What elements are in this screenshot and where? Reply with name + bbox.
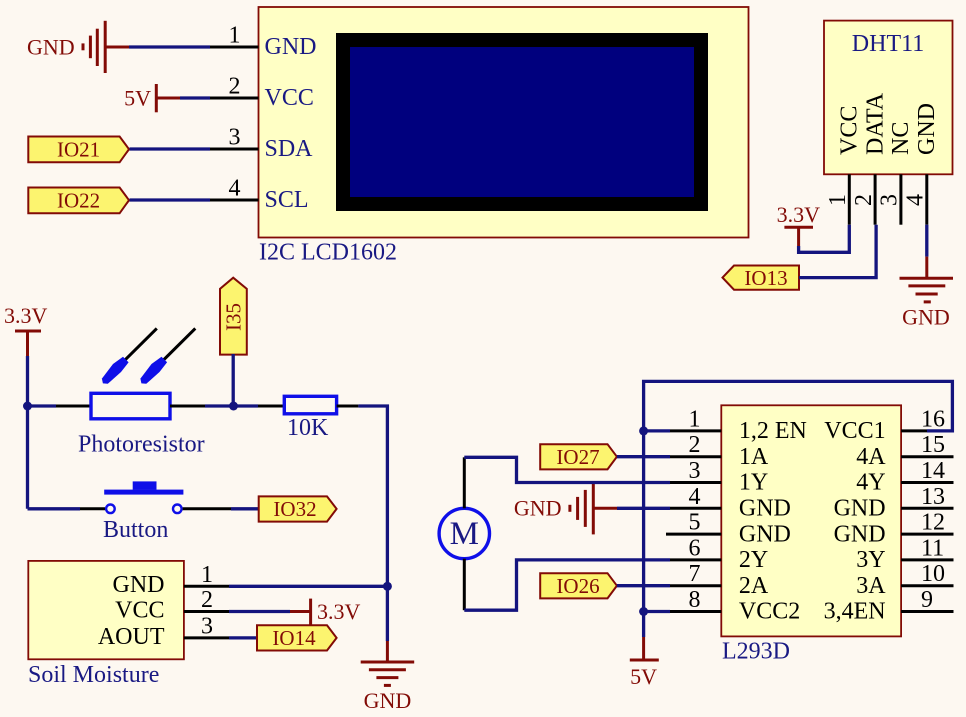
power symbol 3.3V for DHT11 [777,202,821,246]
svg-text:3.3V: 3.3V [4,303,48,328]
pin 2 DATA of DHT11 [851,174,877,224]
net port IO14 [229,625,337,650]
svg-text:GND: GND [914,103,940,155]
svg-text:10: 10 [921,561,945,587]
pin 1 VCC of DHT11 [825,174,851,224]
svg-text:1,2 EN: 1,2 EN [739,418,807,444]
net port IO26 [540,573,617,598]
svg-text:3,4EN: 3,4EN [824,599,886,625]
junction node B [229,402,238,411]
svg-text:GND: GND [265,34,317,60]
svg-text:DHT11: DHT11 [852,31,924,57]
motor M1 [439,508,489,558]
svg-text:L293D: L293D [722,639,790,665]
svg-text:4: 4 [689,484,701,510]
IC U4 L293D body [721,405,901,636]
svg-text:Button: Button [103,517,168,543]
net port IO13 [723,266,800,290]
svg-text:VCC: VCC [837,106,863,155]
svg-text:SDA: SDA [265,136,314,162]
wire Soil GND pin to node C [229,585,387,588]
svg-text:1: 1 [825,194,851,206]
ground symbol GND at L293D pin4 [514,482,617,534]
svg-text:VCC: VCC [265,85,314,111]
power symbol 3.3V for Soil Moisture [229,599,361,625]
sensor U2 DHT11 body [824,21,953,175]
svg-text:1A: 1A [739,444,769,470]
pin 14 (4Y) stub [901,458,953,484]
svg-text:2: 2 [201,587,213,613]
svg-text:IO26: IO26 [556,574,599,598]
ground symbol GND bottom [361,641,415,713]
module U3 Soil Moisture body [28,561,184,659]
svg-text:5: 5 [689,510,701,536]
svg-text:10K: 10K [287,415,329,441]
svg-text:3: 3 [229,125,241,151]
svg-text:9: 9 [921,587,933,613]
svg-text:IO27: IO27 [556,445,599,469]
wire IO26 to pin 7 [617,584,670,587]
svg-text:IO13: IO13 [744,266,787,290]
net port IO32 [259,496,337,521]
svg-text:2A: 2A [739,573,769,599]
pin 13 (GND) stub [901,484,953,510]
svg-text:2: 2 [689,432,701,458]
pin 1 GND of LCD [210,23,259,49]
svg-text:VCC1: VCC1 [824,418,885,444]
svg-text:GND: GND [113,572,165,598]
net port IO21 [28,137,129,163]
svg-text:1Y: 1Y [739,470,768,496]
svg-text:16: 16 [921,406,945,432]
net port I35 [220,278,247,355]
wire IO22 to LCD pin4 [130,198,211,201]
pin 8 (VCC2) stub [670,587,721,613]
pin 3 (1Y) stub [670,458,721,484]
svg-text:1: 1 [229,23,241,49]
resistor R2 10K [258,396,337,441]
svg-text:NC: NC [888,122,914,155]
pin 2 VCC of Soil Moisture [184,587,229,613]
wire node C down to ground [386,586,389,641]
svg-text:7: 7 [689,561,701,587]
pin 5 (GND) stub [666,510,721,536]
ground symbol GND under DHT11 [900,257,954,330]
svg-text:8: 8 [689,587,701,613]
svg-text:M: M [450,516,479,552]
pin 9 (3,4EN) stub [901,587,953,613]
pin 2 (1A) stub [670,432,721,458]
photoresistor R1 body [91,328,195,418]
svg-text:1: 1 [201,562,213,588]
svg-text:2: 2 [851,194,877,206]
wire VCC1 over the top to 5V rail [644,381,953,637]
wire motor top to pin 3 (1Y) [464,457,670,508]
svg-text:I2C LCD1602: I2C LCD1602 [259,240,397,266]
wire 3.3V to DHT11 pin1 [799,225,850,253]
svg-text:6: 6 [689,535,701,561]
junction 5V rail at pin 8 [639,607,648,616]
pin 11 (3Y) stub [901,535,953,561]
svg-text:SCL: SCL [265,187,309,213]
wire 3.3V down to node A [26,356,29,406]
svg-text:14: 14 [921,458,945,484]
svg-text:13: 13 [921,484,945,510]
svg-text:2: 2 [229,74,241,100]
wire 10K to right vertical [337,406,388,586]
svg-text:Soil Moisture: Soil Moisture [28,662,159,688]
pin 3 SDA of LCD [210,125,259,151]
junction node C [383,582,392,591]
net port IO27 [540,444,617,469]
wire ground to pin 4 [617,507,670,510]
pin 15 (4A) stub [901,432,953,458]
svg-text:Photoresistor: Photoresistor [78,431,205,457]
pin 1 GND of Soil Moisture [184,562,229,588]
svg-text:15: 15 [921,432,945,458]
net port IO22 [28,188,129,214]
button S1 [104,481,183,513]
power symbol 3.3V photoresistor branch [4,303,48,356]
svg-text:IO14: IO14 [272,626,316,650]
wire IO21 to LCD pin3 [130,147,211,150]
svg-text:I35: I35 [222,303,246,331]
svg-text:3A: 3A [856,573,886,599]
wire photoresistor to node B [170,405,205,408]
svg-text:GND: GND [739,496,791,522]
junction 5V rail at pin 1 [639,426,648,435]
wire node A to photoresistor [28,404,57,407]
pin 4 GND of DHT11 [903,174,929,224]
svg-text:5V: 5V [630,664,657,689]
svg-text:AOUT: AOUT [98,624,165,650]
svg-text:GND: GND [364,688,412,713]
wire node A down to button [26,406,29,509]
module U1 I2C LCD1602 body [259,7,749,238]
wire button to IO32 [183,507,231,510]
svg-text:1: 1 [689,406,701,432]
wire motor bottom to pin 6 (2Y) [464,559,670,611]
wire rail to pin 1 [644,429,670,432]
svg-text:3.3V: 3.3V [317,599,361,624]
svg-text:5V: 5V [124,86,151,111]
wire 5V net to LCD pin2 [180,96,210,99]
pin 16 (VCC1) stub [901,406,945,432]
svg-text:3: 3 [201,613,213,639]
svg-text:DATA: DATA [862,92,888,155]
wire rail to pin 8 [644,610,670,613]
svg-text:4: 4 [229,176,241,202]
pin 3 NC of DHT11 [877,174,903,224]
svg-text:4: 4 [903,194,929,206]
wire DHT11 pin4 to ground [925,225,928,257]
pin 7 (2A) stub [670,561,721,587]
pin 10 (3A) stub [901,561,953,587]
svg-text:GND: GND [514,496,562,521]
svg-text:VCC: VCC [115,597,164,623]
pin 12 (GND) stub [901,510,953,536]
ground symbol GND top-left [27,21,129,73]
svg-text:IO32: IO32 [273,497,316,521]
svg-text:2Y: 2Y [739,547,768,573]
wire GND net to LCD pin1 [129,45,210,48]
pin 3 AOUT of Soil Moisture [184,613,229,639]
svg-text:GND: GND [834,496,886,522]
pin 1 (1,2 EN) stub [670,406,721,432]
svg-text:3: 3 [877,194,903,206]
wire I35 to node B [232,354,235,406]
pin 4 SCL of LCD [210,176,259,202]
svg-text:VCC2: VCC2 [739,599,800,625]
svg-text:4A: 4A [856,444,886,470]
power symbol 5V bottom [630,637,659,689]
power symbol 5V [124,84,180,112]
svg-text:GND: GND [27,35,75,60]
svg-text:3Y: 3Y [856,547,885,573]
wire IO27 to pin 2 [617,455,670,458]
wire IO13 to DHT11 pin2 [799,225,876,278]
pin 2 VCC of LCD [210,74,259,100]
svg-text:12: 12 [921,510,945,536]
svg-text:IO21: IO21 [57,137,100,161]
pin 6 (2Y) stub [670,535,721,561]
svg-text:IO22: IO22 [57,188,100,212]
svg-text:3: 3 [689,458,701,484]
pin 4 (GND) stub [670,484,721,510]
svg-text:GND: GND [834,521,886,547]
svg-text:4Y: 4Y [856,470,885,496]
svg-text:GND: GND [739,521,791,547]
junction node A [23,402,32,411]
svg-text:GND: GND [902,305,950,330]
svg-text:11: 11 [921,535,944,561]
svg-text:3.3V: 3.3V [777,202,821,227]
